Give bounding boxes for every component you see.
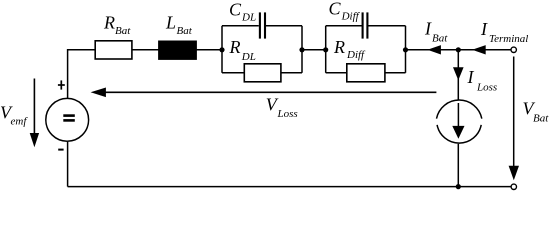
- svg-text:C: C: [229, 0, 242, 20]
- svg-text:C: C: [329, 0, 342, 19]
- current source inner arrow: [457, 103, 459, 127]
- wire: [132, 49, 159, 51]
- svg-text:Diff: Diff: [346, 49, 366, 61]
- I_Terminal arrow: [472, 45, 486, 54]
- wire: [302, 49, 326, 51]
- inductor L1 L_Bat: [159, 41, 197, 59]
- svg-text:Bat: Bat: [115, 25, 131, 37]
- svg-text:R: R: [333, 37, 345, 57]
- resistor R_DL: [244, 64, 281, 82]
- svg-text:I: I: [424, 18, 432, 38]
- V_Loss arrow: [101, 91, 436, 93]
- svg-text:Bat: Bat: [432, 33, 448, 45]
- wire bottom rail: [68, 186, 512, 188]
- capacitor C_DL plates: [260, 12, 265, 38]
- svg-text:Bat: Bat: [533, 113, 549, 125]
- V_emf arrow: [33, 79, 35, 135]
- wire: [67, 142, 69, 187]
- I_Loss arrow: [453, 67, 464, 80]
- svg-text:Terminal: Terminal: [489, 33, 528, 45]
- svg-text:DL: DL: [241, 12, 256, 24]
- minus sign: [58, 149, 63, 151]
- svg-text:R: R: [103, 13, 115, 33]
- svg-text:DL: DL: [241, 51, 256, 63]
- RC network 2 frame: [326, 26, 406, 73]
- terminal node bottom right: [511, 184, 516, 189]
- svg-text:Loss: Loss: [277, 108, 298, 120]
- svg-text:Bat: Bat: [177, 25, 193, 37]
- I_Bat arrow: [427, 45, 441, 54]
- svg-text:L: L: [165, 13, 176, 33]
- voltage source U1 V_emf: [46, 98, 89, 141]
- V_Bat arrow: [513, 57, 515, 168]
- svg-text:I: I: [467, 67, 475, 87]
- wire: [196, 49, 222, 51]
- wire: [68, 50, 96, 99]
- wire: [457, 144, 459, 187]
- plus sign: [58, 80, 65, 89]
- current source U2 I_Loss source: two arcs: [437, 100, 482, 143]
- capacitor C_Diff plates: [363, 12, 368, 38]
- svg-text:R: R: [229, 37, 241, 57]
- wire: [457, 50, 459, 101]
- resistor R1 R_Bat: [95, 41, 132, 59]
- resistor R_Diff: [347, 64, 385, 82]
- wire: [406, 49, 512, 51]
- RC network 1 frame: [222, 26, 302, 73]
- terminal node top right: [511, 47, 516, 52]
- svg-text:Diff: Diff: [341, 11, 361, 23]
- node junction dots: [219, 47, 461, 189]
- svg-text:Loss: Loss: [476, 81, 497, 93]
- svg-text:emf: emf: [11, 116, 29, 128]
- svg-text:I: I: [480, 19, 488, 39]
